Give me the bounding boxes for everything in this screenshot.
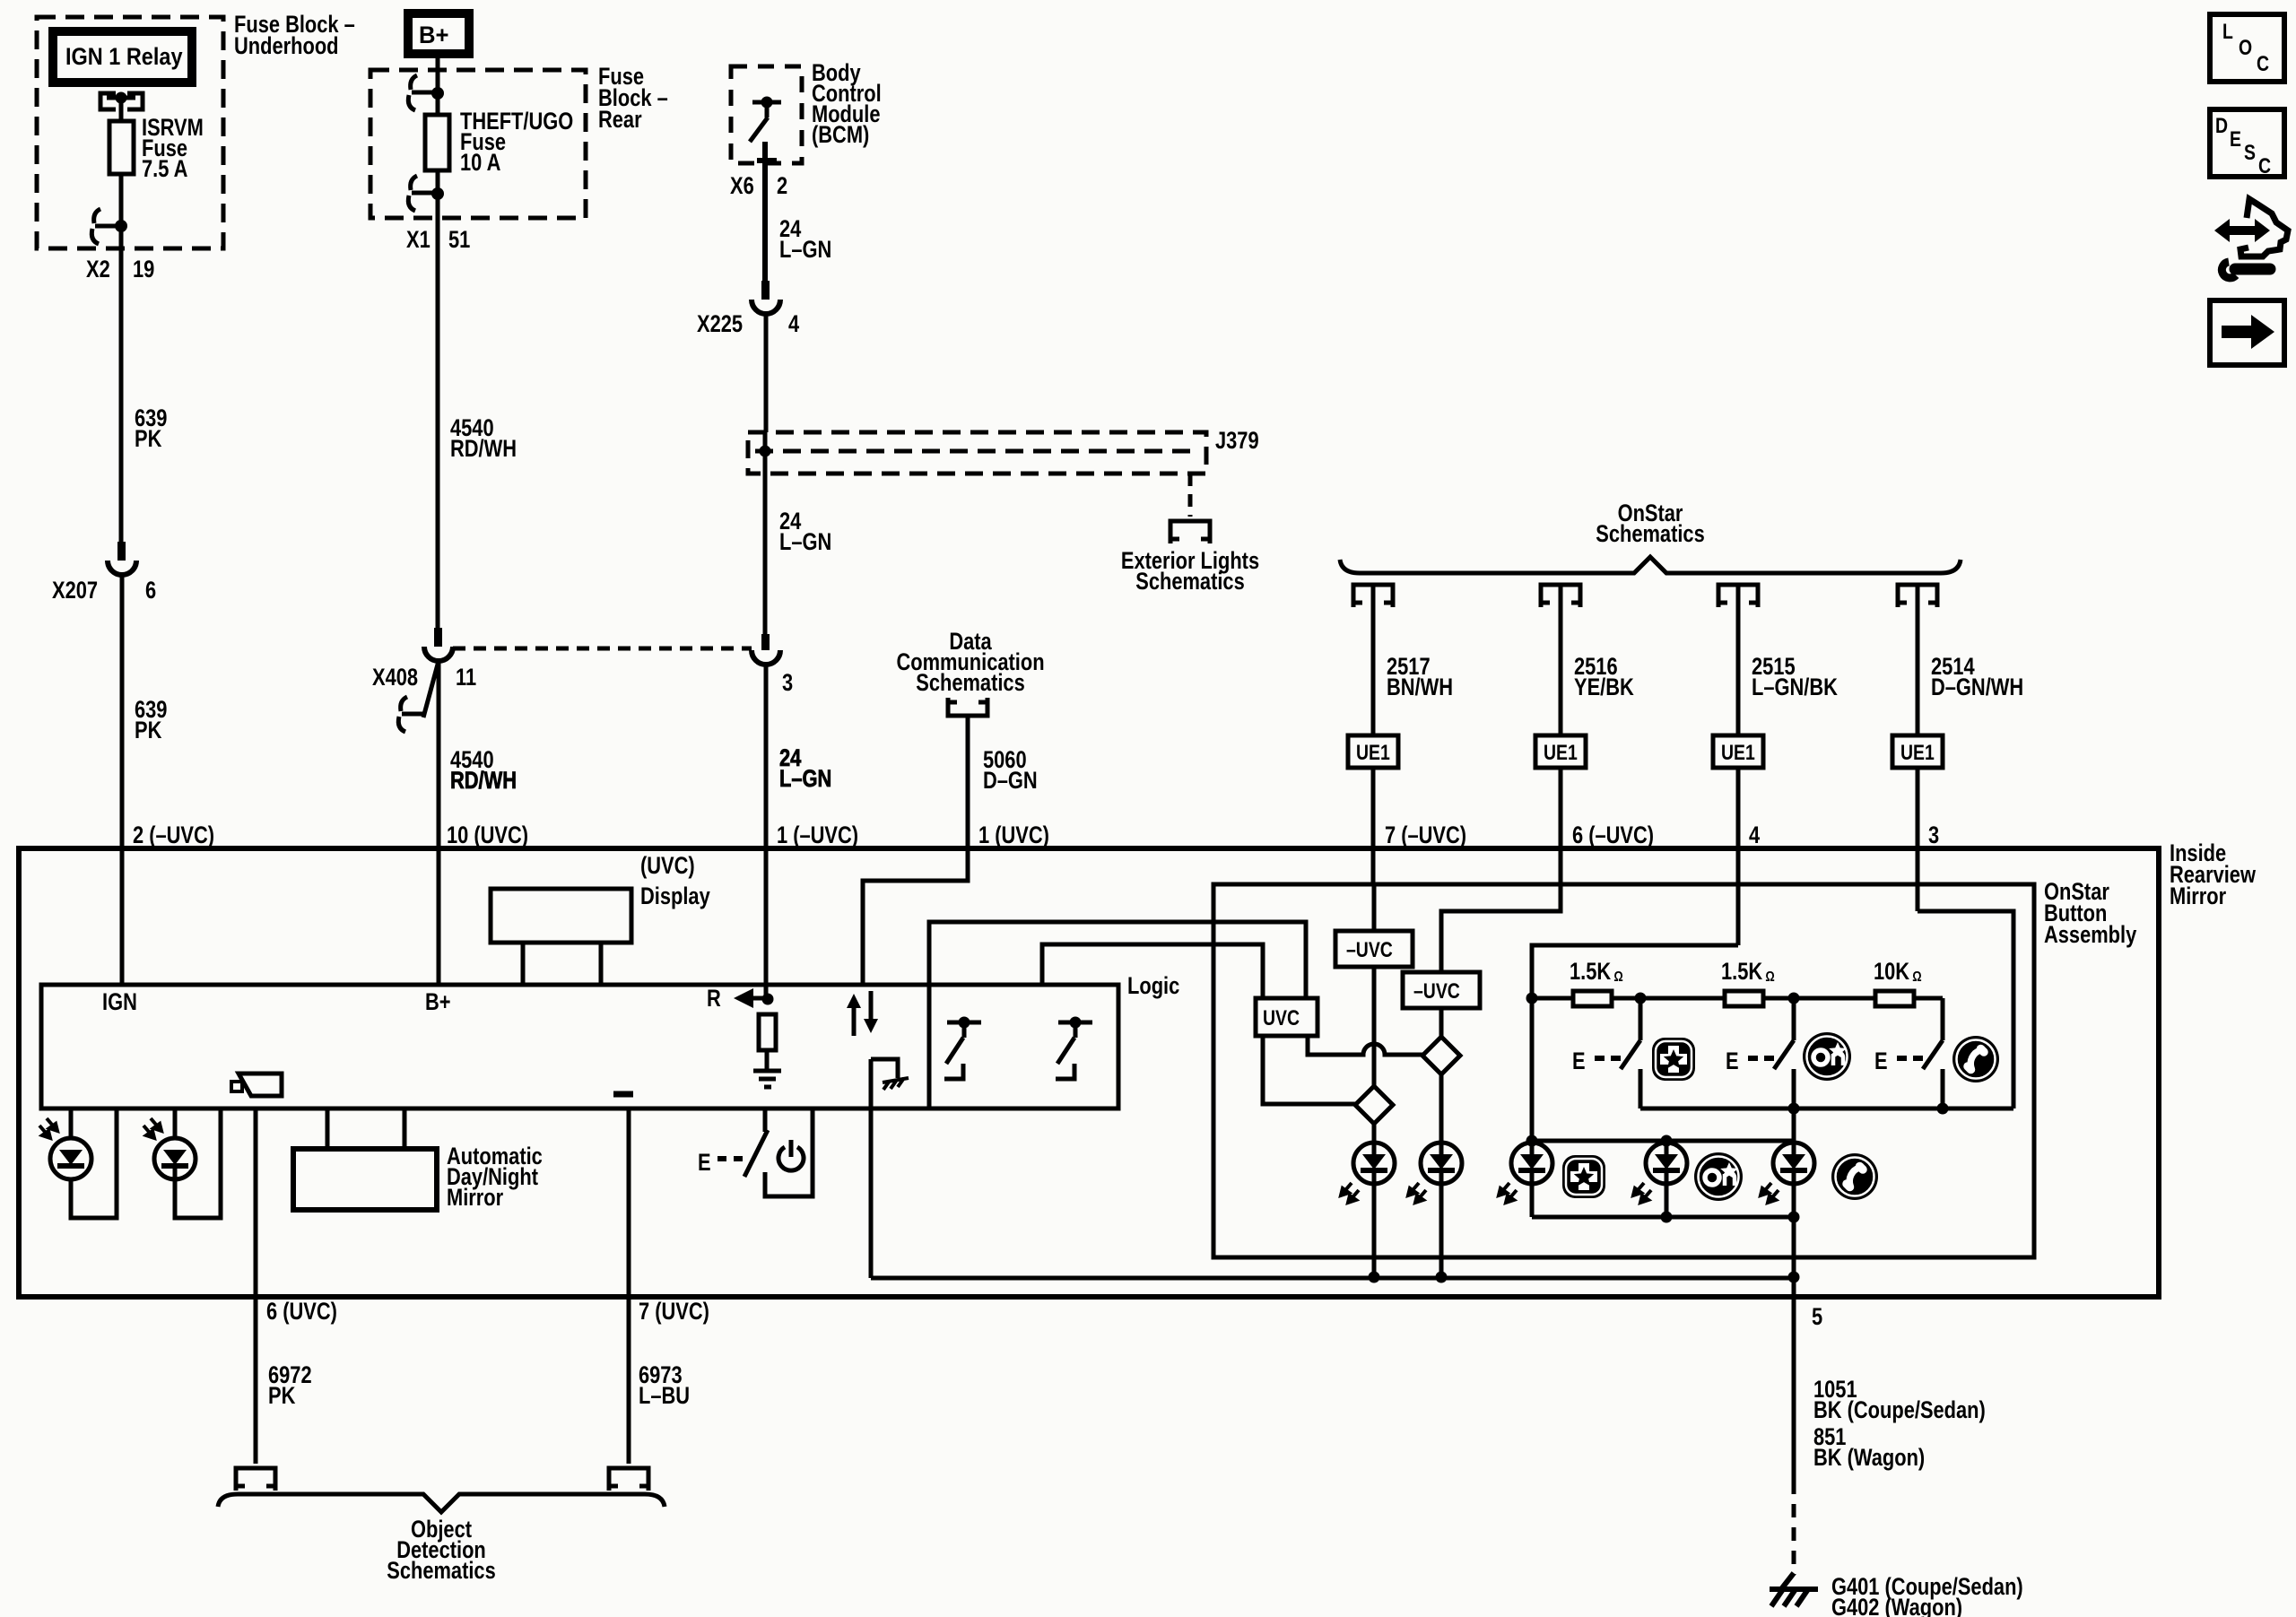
svg-text:Assembly: Assembly (2044, 922, 2137, 949)
LED indicator T2 (1665, 1141, 1669, 1143)
svg-text:11: 11 (456, 665, 476, 691)
connector clip OnStar 1 (1353, 585, 1393, 607)
icon next-page arrow box (2210, 300, 2284, 365)
svg-text:3: 3 (1928, 822, 1939, 849)
wire 2 jog into assembly (1441, 884, 1561, 972)
svg-text:5: 5 (1812, 1304, 1822, 1331)
connector clip OnStar 4 (1898, 585, 1937, 607)
label minus (613, 1091, 633, 1098)
label Automatic Day/Night Mirror (447, 1143, 543, 1212)
button icon emergency (T1) (1562, 1155, 1605, 1198)
svg-text:–UVC: –UVC (1346, 937, 1393, 961)
power switch lever (744, 1130, 768, 1177)
node dot LED2 rail (1436, 1272, 1448, 1283)
svg-text:B+: B+ (425, 989, 451, 1016)
wire trio to ground rail (1792, 1217, 1796, 1278)
fuse F1 ISRVM (109, 121, 134, 174)
mirror outer box (19, 848, 2159, 1297)
connector clip exterior lights (1170, 521, 1210, 543)
node dot logic sw1 (959, 1017, 970, 1029)
label Data Communication Schematics (896, 629, 1044, 697)
svg-text:D–GN/WH: D–GN/WH (1931, 674, 2023, 701)
svg-text:19: 19 (133, 256, 154, 283)
switch SW3 (phone) (1923, 998, 1943, 1108)
wire sw rail down to trio (1792, 1108, 1796, 1143)
LED indicator T3 (1761, 1143, 1814, 1203)
svg-text:UE1: UE1 (1544, 740, 1578, 764)
button icon phone (T3) (1831, 1153, 1878, 1200)
diode diamond 2 (1422, 1037, 1460, 1074)
svg-text:X225: X225 (697, 311, 743, 338)
connector X207 pin stub (117, 542, 126, 561)
svg-text:B+: B+ (419, 21, 448, 48)
onstar button assembly box (1213, 884, 2034, 1257)
svg-text:Underhood: Underhood (234, 33, 339, 60)
LED trio bottom rail (1532, 1184, 1794, 1217)
svg-text:G402 (Wagon): G402 (Wagon) (1831, 1595, 1962, 1617)
label X225 | 4 (697, 311, 799, 338)
svg-text:X207: X207 (52, 578, 98, 604)
component box UVC (1256, 998, 1318, 1036)
wire 5 down (1792, 1278, 1796, 1481)
node dot BCM (761, 97, 773, 109)
svg-text:10 A: 10 A (460, 150, 501, 177)
svg-text:2: 2 (777, 173, 787, 200)
svg-text:UE1: UE1 (1721, 740, 1755, 764)
automatic day/night mirror legs (327, 1108, 404, 1149)
label wire 24 L-GN (1) (779, 216, 831, 264)
node: relay output dot (116, 92, 127, 104)
label wire 4540 RD/WH (lower, bold print) (450, 747, 517, 795)
svg-text:L–GN: L–GN (779, 237, 831, 264)
diode diamond 1 (1355, 1086, 1393, 1124)
ground symbol (signal) (753, 1071, 781, 1087)
button icon emergency (SW1) (1652, 1038, 1695, 1081)
svg-text:X2: X2 (86, 256, 110, 283)
LED indicator 2 (1408, 1143, 1462, 1203)
svg-text:Schematics: Schematics (387, 1558, 495, 1585)
label Inside Rearview Mirror (2170, 840, 2257, 910)
wire data comm jog inside box (863, 848, 968, 985)
power switch bracket (765, 1108, 813, 1196)
component box -UVC (wire1) (1335, 931, 1413, 967)
node dot (431, 187, 444, 200)
photodiode sensor D1 (39, 1108, 117, 1218)
wire -UVC1 to diamond (1372, 967, 1377, 1086)
wire down through fuse block edge (119, 226, 124, 542)
wire resistor to ground (765, 1050, 770, 1069)
wire through J379 (763, 432, 768, 474)
label wire 6973 L-BU (639, 1362, 690, 1410)
svg-text:6: 6 (145, 578, 156, 604)
terminal tick at BCM box edge (757, 158, 777, 163)
connector X408 pin stub (434, 628, 442, 647)
svg-text:UVC: UVC (1263, 1005, 1300, 1030)
label X1 | 51 (406, 227, 470, 254)
node dot (431, 87, 444, 100)
connector UE1 (wire 3) (1713, 735, 1763, 768)
svg-text:L–GN: L–GN (779, 529, 831, 556)
power icon (778, 1140, 804, 1170)
actuator E-- (SW2) (1726, 1048, 1774, 1075)
svg-text:E: E (1726, 1048, 1739, 1075)
label OnStar Schematics (1596, 500, 1704, 548)
wire OnStar 4 down (1916, 585, 1920, 735)
svg-text:51: 51 (448, 227, 470, 254)
connector socket (node 3) (752, 650, 780, 665)
connector UE1 (wire 2) (1535, 735, 1586, 768)
switch lever at X408 (423, 661, 439, 717)
power switch actuator E-- (698, 1150, 743, 1177)
svg-text:Schematics: Schematics (916, 670, 1024, 697)
connector hook at X2 (91, 209, 121, 244)
icon car diagnostic (arrow + car + wrench) (2214, 199, 2288, 278)
svg-text:–UVC: –UVC (1413, 978, 1460, 1003)
wire B to object detection (7 UVC) (627, 1108, 631, 1464)
splice J379 dashed box (748, 432, 1206, 474)
svg-text:RD/WH: RD/WH (450, 436, 517, 463)
display component box (491, 889, 631, 943)
wire 1 into assembly (1372, 884, 1377, 931)
label wire 2517 BN/WH (1387, 654, 1453, 701)
arrow R (734, 988, 753, 1008)
svg-text:BN/WH: BN/WH (1387, 674, 1453, 701)
terminal B+ box (408, 13, 469, 54)
svg-text:IGN 1 Relay: IGN 1 Relay (65, 44, 183, 71)
connector X408 socket (424, 647, 453, 661)
svg-text:(UVC): (UVC) (640, 853, 695, 880)
wire UVC pin4 to diamond2 (with hop) (1308, 1036, 1422, 1055)
node dot rail at sw2 (1788, 993, 1800, 1004)
svg-text:BK (Coupe/Sedan): BK (Coupe/Sedan) (1813, 1397, 1986, 1424)
svg-text:Schematics: Schematics (1135, 569, 1244, 596)
wire fuse to hook (119, 174, 124, 230)
label wire 6972 PK (268, 1362, 312, 1410)
connector clip OnStar 3 (1718, 585, 1758, 607)
svg-text:BK (Wagon): BK (Wagon) (1813, 1445, 1925, 1472)
svg-text:E: E (2230, 126, 2241, 151)
brace object detection (218, 1494, 665, 1512)
svg-text:PK: PK (268, 1383, 296, 1410)
wire OnStar 4 to box (1916, 768, 1920, 911)
switch SW1 (emergency) (1621, 998, 1640, 1108)
svg-text:E: E (1572, 1048, 1586, 1075)
svg-text:1 (UVC): 1 (UVC) (978, 822, 1049, 849)
label OnStar Button Assembly (2044, 879, 2137, 949)
label wire 24 L-GN (2) (779, 509, 831, 556)
svg-text:PK: PK (135, 717, 162, 744)
brace OnStar (1340, 557, 1961, 573)
chassis ground stub inside box (871, 1059, 898, 1078)
resistor R3 10K (1875, 991, 1914, 1006)
label X207 | 6 (52, 578, 156, 604)
label: Fuse Block - Underhood (234, 12, 355, 60)
wire diamond2 to LED2 (1439, 1074, 1444, 1143)
resistor rail segments (1532, 996, 1943, 1001)
svg-text:Logic: Logic (1127, 973, 1179, 1000)
svg-text:D: D (2215, 113, 2228, 137)
svg-text:O: O (2239, 35, 2252, 59)
wire J379 down to junction (763, 474, 768, 634)
label wire 2514 D-GN/WH (1931, 654, 2023, 701)
connector pin stub (node 3) (761, 634, 770, 650)
label X408 | 11 (372, 665, 476, 691)
dashed drop to exterior lights (1188, 474, 1193, 517)
fuse block rear dashed box (370, 70, 586, 218)
LED indicator 1 (1341, 1143, 1395, 1203)
wire rail1113 down to LED trio (1530, 998, 1535, 1143)
svg-text:UE1: UE1 (1900, 740, 1935, 764)
wire BCM output (762, 142, 768, 281)
svg-text:RD/WH: RD/WH (450, 768, 517, 795)
label X2 | 19 (86, 256, 154, 283)
wire fuse to lower hook (436, 170, 440, 196)
relay contact terminals (100, 93, 143, 109)
connector hook at X408 (398, 697, 423, 732)
wire BCM into mirror module (764, 985, 769, 999)
wire X225 down (764, 314, 769, 432)
LED trio top rail (1532, 1139, 1794, 1143)
label 851 BK (Wagon) (1813, 1424, 1925, 1472)
svg-text:1 (–UVC): 1 (–UVC) (777, 822, 858, 849)
svg-text:3: 3 (782, 670, 793, 697)
fuse F2 THEFT/UGO (425, 115, 449, 170)
switch SW2 (OnStar) (1774, 998, 1794, 1108)
connector hook lower (fuse rear) (408, 176, 438, 211)
chassis ground symbol (883, 1078, 909, 1090)
label (UVC) Display (640, 853, 710, 910)
wire OnStar 1 down (1371, 585, 1376, 735)
svg-text:6 (–UVC): 6 (–UVC) (1572, 822, 1654, 849)
node dot logic sw2 (1070, 1017, 1082, 1029)
svg-text:(BCM): (BCM) (812, 122, 869, 149)
connector X225 socket (752, 300, 780, 314)
node dot trio rail mid (1661, 1135, 1673, 1147)
resistor R (mirror) (759, 1014, 776, 1050)
node dot sw rail at sw3 (1937, 1103, 1949, 1115)
logic switch 1 (944, 1022, 981, 1079)
node dot trio bottom mid (1661, 1212, 1673, 1223)
node dot LED1 rail (1369, 1272, 1380, 1283)
label wire 2515 L-GN/BK (1752, 654, 1838, 701)
svg-text:X1: X1 (406, 227, 430, 254)
node dot trio bottom right (1788, 1212, 1800, 1223)
power switch post (763, 1108, 768, 1132)
dashed link X408 to X225 wire (453, 647, 752, 651)
svg-text:7.5 A: 7.5 A (142, 156, 188, 183)
button icon phone (SW3) (1952, 1036, 1999, 1082)
resistor R1 1.5K (1573, 991, 1612, 1006)
label wire 639 PK (lower) (135, 697, 167, 744)
svg-text:D–GN: D–GN (983, 768, 1038, 795)
icon LOC box (2210, 14, 2284, 82)
BCM internal switch (750, 102, 781, 142)
wire chassis down to rail (869, 1059, 874, 1278)
wire X207 down to mirror box (120, 575, 125, 985)
arrows up-down (847, 994, 878, 1033)
relay K: IGN 1 Relay label box (53, 31, 192, 83)
wire relay to fuse (119, 98, 124, 121)
connector clip OnStar 2 (1541, 585, 1580, 607)
BCM dashed box (731, 66, 802, 163)
logic divider (927, 985, 932, 1108)
button icon OnStar (T2) (1694, 1152, 1743, 1201)
switch common rail (1640, 1107, 2013, 1111)
svg-text:L–GN/BK: L–GN/BK (1752, 674, 1838, 701)
svg-text:Schematics: Schematics (1596, 521, 1704, 548)
photodiode sensor D2 (143, 1108, 221, 1218)
wire X408 down to mirror box (437, 661, 441, 985)
svg-text:7 (–UVC): 7 (–UVC) (1385, 822, 1466, 849)
label Exterior Lights Schematics (1121, 548, 1259, 596)
connector X225 pin stub (761, 281, 770, 300)
wire LED2 to rail (1439, 1184, 1444, 1277)
label: Fuse Block - Rear (598, 64, 668, 134)
automatic day/night mirror box (293, 1149, 437, 1210)
node dot rail left (1526, 993, 1538, 1004)
wire diamond1 to LED1 (1372, 1124, 1377, 1143)
label THEFT/UGO Fuse 10 A (460, 109, 573, 177)
label wire 4540 RD/WH (upper) (450, 415, 517, 463)
svg-text:L–BU: L–BU (639, 1383, 690, 1410)
wire down to mirror box (764, 665, 769, 985)
connector UE1 (wire 4) (1892, 735, 1943, 768)
connector clip object detection A (236, 1468, 275, 1491)
svg-text:E: E (698, 1150, 711, 1177)
svg-text:4: 4 (788, 311, 799, 338)
wire data comm down (966, 716, 970, 848)
wire OnStar 3 to box (1736, 768, 1741, 945)
label: ISRVM Fuse 7.5 A (142, 115, 204, 183)
wire A to object detection (6 UVC) (254, 1108, 258, 1464)
node dot ground rail (1788, 1272, 1800, 1283)
svg-text:S: S (2244, 140, 2256, 164)
label Object Detection Schematics (387, 1517, 495, 1585)
actuator E-- (SW1) (1572, 1048, 1621, 1075)
svg-text:7 (UVC): 7 (UVC) (639, 1299, 709, 1326)
svg-text:Rear: Rear (598, 107, 642, 134)
wire down through block edge (436, 196, 440, 628)
connector hook upper (fuse rear) (408, 75, 438, 110)
actuator E-- (SW3) (1874, 1048, 1923, 1075)
svg-text:Mirror: Mirror (447, 1185, 504, 1212)
label X6 | 2 (730, 173, 787, 200)
svg-text:J379: J379 (1215, 428, 1259, 455)
label wire 24 L-GN (3, bold print) (779, 745, 831, 793)
button icon OnStar (SW2) (1803, 1032, 1851, 1081)
node dot on J379 bus (760, 446, 771, 457)
svg-text:C: C (2257, 51, 2269, 75)
node dot sw rail at LED column (1788, 1103, 1800, 1115)
wire B+ down (436, 54, 440, 96)
wire OnStar 2 to box (1559, 768, 1563, 911)
wire UVC pin3 to diamond1 (1263, 1036, 1355, 1104)
svg-text:PK: PK (135, 426, 162, 453)
svg-text:UE1: UE1 (1356, 740, 1390, 764)
dashed wire to ground (1792, 1481, 1796, 1575)
svg-text:L–GN: L–GN (779, 766, 831, 793)
display legs (523, 943, 601, 985)
wire OnStar 3 down (1736, 585, 1741, 735)
label Body Control Module (BCM) (812, 60, 882, 149)
resistor R2 1.5K (1725, 991, 1763, 1006)
wire OnStar 2 down (1559, 585, 1563, 735)
wire logic 1 hookup (to UVC pin 2) (929, 922, 1306, 998)
wire logic 2 hookup (to UVC pin 1) (1042, 944, 1263, 998)
label wire 639 PK (upper) (135, 405, 167, 453)
camera/display icon on inner box (231, 1074, 282, 1096)
label 1051 BK (Coupe/Sedan) (1813, 1377, 1986, 1424)
svg-text:10 (UVC): 10 (UVC) (447, 822, 528, 849)
label wire 5060 D-GN (983, 747, 1038, 795)
svg-text:2 (–UVC): 2 (–UVC) (133, 822, 214, 849)
connector UE1 (wire 1) (1348, 735, 1398, 768)
node dot trio rail left (1526, 1135, 1538, 1147)
ground rail to pin 5 (871, 1276, 1794, 1281)
J379 internal dashed bus (755, 449, 1200, 454)
connector clip data comm (948, 698, 987, 716)
svg-text:4: 4 (1749, 822, 1760, 849)
svg-text:X408: X408 (372, 665, 418, 691)
ground G401/G402 symbol (1770, 1573, 1818, 1606)
svg-text:L: L (2222, 19, 2233, 43)
mirror inner module box (41, 985, 1118, 1108)
node: hook dot (115, 220, 127, 232)
node R dot (762, 994, 774, 1005)
svg-text:Display: Display (640, 883, 710, 910)
svg-text:E: E (1874, 1048, 1888, 1075)
fuse block underhood dashed box (37, 17, 223, 248)
wire OnStar 1 to box (1371, 768, 1376, 884)
wire -UVC2 to diamond2 (1439, 1008, 1444, 1037)
connector X207 socket (108, 561, 136, 575)
logic switch 2 (1056, 1022, 1092, 1079)
svg-text:YE/BK: YE/BK (1574, 674, 1634, 701)
svg-text:IGN: IGN (102, 989, 137, 1016)
svg-text:X6: X6 (730, 173, 754, 200)
icon DESC box (2210, 109, 2284, 178)
wire to fuse (436, 96, 440, 115)
wire 3 jog to resistor rail (1532, 945, 1738, 998)
label G401 G402 (1831, 1574, 2023, 1617)
connector clip object detection B (609, 1468, 648, 1491)
svg-text:R: R (707, 986, 721, 1013)
node dot rail at sw1 (1635, 993, 1647, 1004)
svg-text:Mirror: Mirror (2170, 883, 2227, 910)
component box -UVC (wire2) (1403, 972, 1480, 1008)
wire 4 jog to switch rail (1918, 911, 2013, 1108)
wire LED1 to rail (1372, 1184, 1377, 1277)
svg-text:C: C (2258, 153, 2271, 178)
label wire 2516 YE/BK (1574, 654, 1634, 701)
LED indicator T1 (1499, 1143, 1552, 1203)
svg-text:6 (UVC): 6 (UVC) (266, 1299, 337, 1326)
